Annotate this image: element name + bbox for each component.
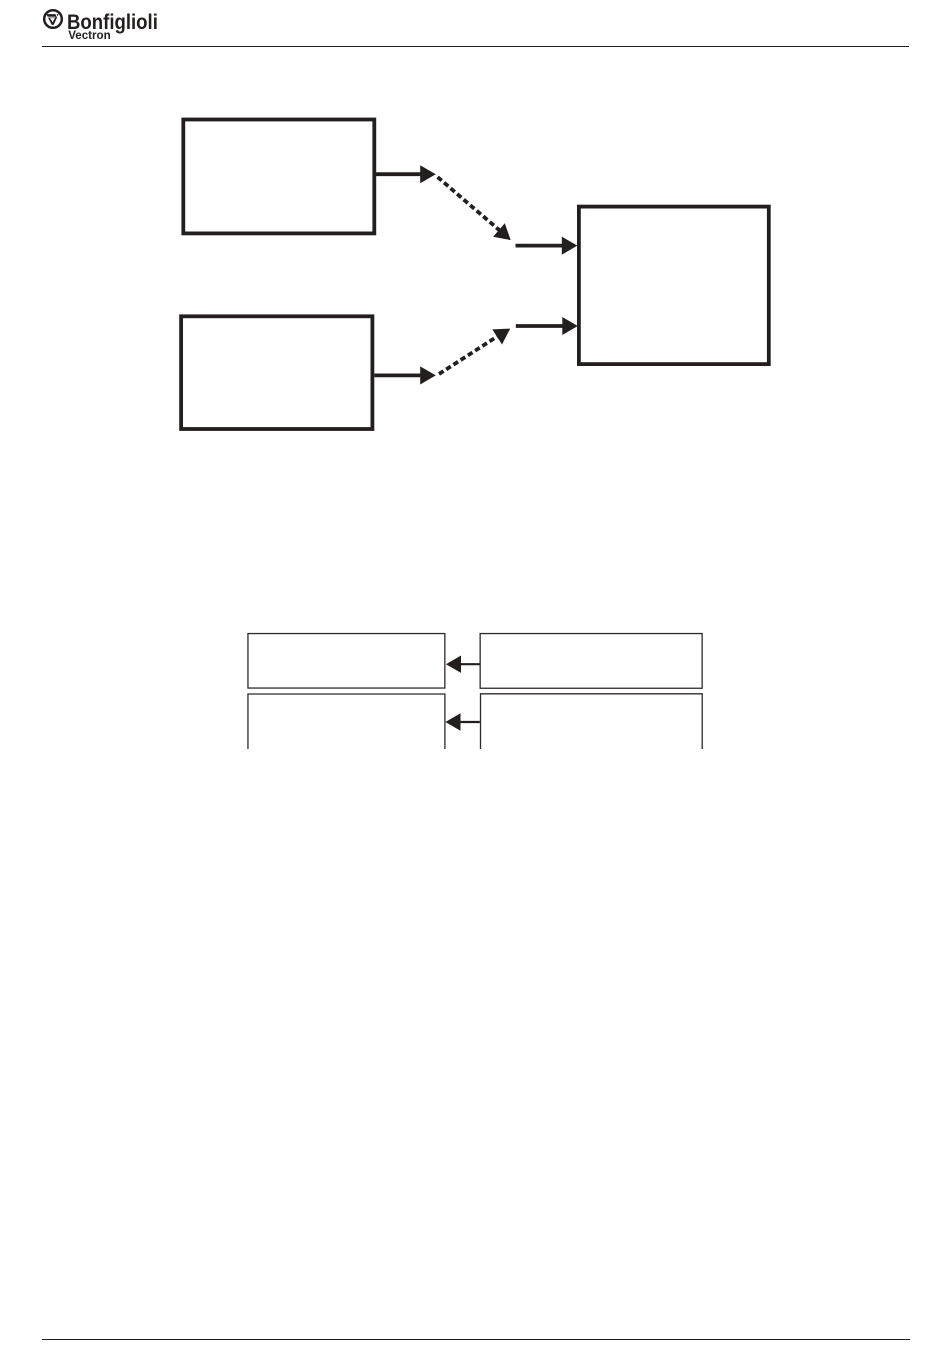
box lower-left: [181, 316, 372, 429]
arrow D: solid right from lower-left box: [374, 366, 436, 384]
lower row2 right box (clipped, no bottom border): [481, 694, 703, 749]
lower row1 left box: [248, 634, 445, 689]
arrow G: left arrow row1: [446, 656, 480, 673]
arrow C: solid right into right box (upper): [516, 237, 578, 255]
box upper-left: [183, 120, 374, 234]
box right: [579, 207, 769, 365]
logo emblem (circle with inverted triangle): [42, 8, 65, 31]
arrow A: solid right from upper-left box: [376, 165, 436, 183]
arrow H: left arrow row2: [445, 713, 479, 730]
figure: block diagram: [0, 0, 950, 800]
arrow E: dashed diagonal up-right: [439, 329, 510, 374]
arrow B: dashed diagonal down-right: [438, 177, 511, 240]
footer rule: [42, 1339, 910, 1340]
logo wordmark "Bonfiglioli": [67, 10, 158, 35]
lower row1 right box: [480, 634, 702, 689]
header rule: [42, 46, 909, 47]
logo subtitle "Vectron": [68, 29, 111, 42]
arrow F: solid right into right box (lower): [516, 317, 578, 335]
lower row2 left box (clipped, no bottom border): [248, 694, 445, 749]
